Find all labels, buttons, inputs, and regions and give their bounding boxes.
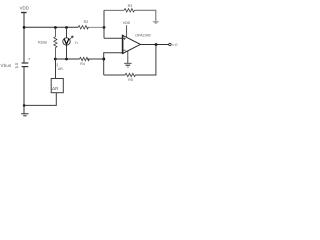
svg-text:Rstar: Rstar (38, 40, 48, 44)
source variable arrow (70, 36, 74, 39)
svg-text:R3: R3 (128, 4, 133, 8)
wire R3 to corner (135, 10, 156, 21)
op-amp Vminus pin (127, 51, 129, 63)
wire minus input with corner (104, 53, 123, 75)
node top rail / source (65, 26, 68, 29)
svg-text:OPA2340: OPA2340 (135, 33, 150, 37)
resistor R5 (125, 73, 136, 76)
op-amp VDD pin (126, 25, 128, 37)
wire column x104 (103, 10, 105, 38)
resistor R4 (80, 57, 90, 60)
node bottom rail / source (65, 58, 68, 61)
svg-text:µF: µF (15, 65, 19, 69)
ground op-amp (124, 62, 131, 64)
box delta R (51, 79, 63, 93)
annotation mark near Rstar branch (56, 63, 58, 67)
wire output (140, 44, 168, 46)
node lower T (23, 104, 26, 107)
svg-text:R5: R5 (128, 78, 133, 82)
source V circle column (66, 27, 68, 59)
svg-text:O: O (175, 43, 178, 47)
svg-text:ΔR: ΔR (52, 86, 59, 91)
wire bottom rail (55, 58, 79, 60)
wire plus input (104, 37, 122, 39)
source V circle (63, 38, 70, 45)
terminal output circle (169, 43, 171, 45)
svg-text:VDD: VDD (20, 6, 29, 11)
ground lower (21, 113, 28, 115)
svg-text:VDD: VDD (123, 21, 131, 25)
wire VDD column upper (23, 13, 25, 64)
arrow to output node (152, 21, 159, 24)
wire feedback vertical (136, 45, 156, 76)
wire R4 to node (87, 58, 104, 60)
op-amp U1 triangle (123, 35, 141, 53)
svg-text:R4: R4 (80, 62, 85, 66)
wire box bottom (24, 93, 56, 106)
wire top rail (24, 26, 78, 28)
capacitor Vbus plates (22, 62, 29, 64)
wire Rstar node to box (55, 59, 57, 79)
svg-text:ΔR.: ΔR. (58, 67, 64, 71)
node feedback (102, 57, 105, 60)
svg-text:R2: R2 (84, 20, 89, 24)
wire R2 to node (87, 26, 105, 28)
svg-text:1: 1 (77, 41, 79, 45)
VDD rail symbol (21, 12, 27, 14)
svg-text:Vbus: Vbus (1, 63, 13, 68)
node bottom rail / Rstar (54, 58, 57, 61)
node output (155, 43, 158, 46)
node VDD junction (23, 26, 26, 29)
wire top horizontal to R3 (104, 9, 124, 11)
wire R5 to node (104, 74, 125, 76)
wire VDD column lower to ground (23, 67, 25, 114)
op-amp minus sign (123, 49, 126, 51)
capacitor plus sign (28, 58, 30, 60)
node top rail / Rstar (54, 26, 57, 29)
op-amp plus sign (123, 37, 126, 40)
node at x104 top rail (103, 26, 106, 29)
